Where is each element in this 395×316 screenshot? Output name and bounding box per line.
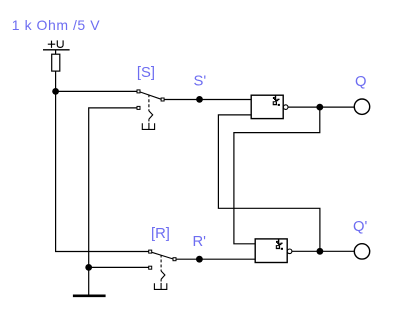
node Q' (317, 248, 324, 255)
node pull-up junction (52, 88, 59, 95)
label R' (193, 234, 207, 250)
wire node to switch S top terminal (56, 90, 137, 92)
terminal Q (354, 99, 369, 114)
svg-text:R': R' (193, 234, 207, 250)
wire R' to gate U2 input 2 (176, 258, 255, 260)
svg-text:[S]: [S] (137, 65, 155, 81)
label S' (194, 74, 207, 90)
wire switch S lower terminal to ground rail down (89, 108, 137, 268)
terminal Q' (354, 244, 369, 259)
node ground junction (85, 264, 92, 271)
node Q (316, 104, 323, 111)
svg-text:Q': Q' (353, 219, 368, 235)
label Q' (353, 219, 368, 235)
wire Q' node to gate U1 input 2 (cross coupling) (218, 115, 320, 251)
resistor R1 (1 k Ohm) (52, 54, 60, 71)
power +U bar (43, 49, 70, 51)
svg-text:1 k Ohm /5 V: 1 k Ohm /5 V (12, 17, 100, 33)
wire resistor to node (55, 71, 57, 91)
switch S (push button) (137, 90, 164, 129)
nand gate U1 (251, 95, 288, 118)
wire ground stub (88, 267, 90, 294)
wire U2 output to Q' terminal (292, 250, 355, 252)
label [R] (151, 226, 170, 242)
power +U label (48, 40, 63, 48)
wire S' to gate U1 input 1 (164, 99, 251, 101)
label Q (355, 74, 367, 90)
svg-text:Q: Q (355, 74, 367, 90)
wire left rail down to switch R top terminal (56, 91, 149, 251)
svg-text:[R]: [R] (151, 226, 170, 242)
switch R (push button) (149, 250, 176, 289)
nand gate U2 (255, 239, 292, 263)
node S' (196, 96, 203, 103)
node R' (196, 256, 203, 263)
wire U1 output to Q terminal (288, 106, 354, 108)
wire power stub (55, 50, 57, 55)
svg-text:S': S' (194, 74, 207, 90)
ground (73, 294, 106, 297)
wire Q node to gate U2 input 1 (cross coupling) (234, 107, 320, 244)
wire ground node to switch R lower terminal (89, 266, 149, 268)
label [S] (137, 65, 155, 81)
title label "1 k Ohm /5 V" (12, 17, 100, 33)
